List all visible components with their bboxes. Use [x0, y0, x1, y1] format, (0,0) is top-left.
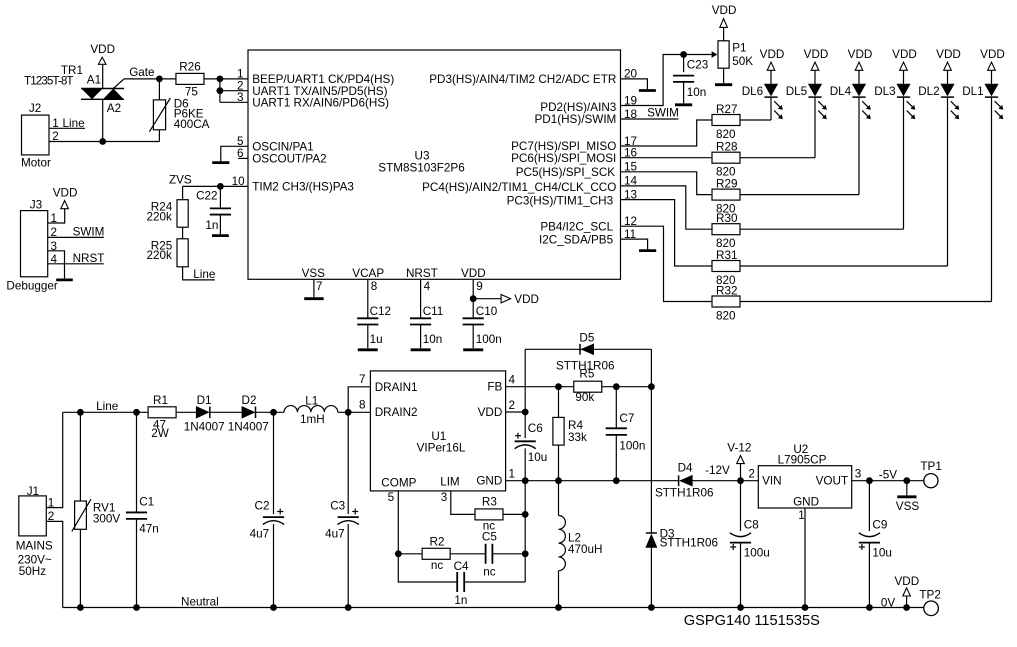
- junction R26 / pin1 / pin2: [217, 76, 224, 83]
- svg-text:VDD: VDD: [936, 48, 961, 61]
- resistor R2: [422, 548, 450, 559]
- svg-text:1n: 1n: [454, 594, 467, 607]
- ground below C11: [411, 348, 431, 351]
- svg-text:GND: GND: [793, 496, 819, 509]
- wire U3 pin7 VSS to ground: [313, 279, 315, 297]
- svg-text:10u: 10u: [872, 547, 892, 560]
- svg-text:PD3(HS)/AIN4/TIM2 CH2/ADC ETR: PD3(HS)/AIN4/TIM2 CH2/ADC ETR: [429, 73, 616, 86]
- LED DL6: [742, 84, 783, 119]
- ground below C10: [463, 348, 483, 351]
- wire C3 top: [347, 412, 349, 514]
- svg-text:8: 8: [359, 399, 366, 412]
- svg-text:NRST: NRST: [406, 267, 438, 280]
- svg-text:100n: 100n: [476, 333, 502, 346]
- svg-text:300V: 300V: [93, 512, 121, 525]
- svg-text:A2: A2: [107, 102, 121, 115]
- transil diode D6 P6KE 400CA: [149, 79, 209, 142]
- resistor R24: [177, 200, 188, 228]
- wire C2 bottom: [273, 524, 275, 608]
- svg-text:V-12: V-12: [727, 442, 751, 455]
- svg-text:3: 3: [441, 491, 448, 504]
- svg-text:R26: R26: [179, 60, 200, 73]
- svg-text:DL5: DL5: [786, 85, 808, 98]
- wire J3 pin3 to ground: [48, 251, 65, 279]
- junction pin2 tap: [217, 87, 224, 94]
- wire VDD to P1: [723, 27, 725, 40]
- wire C11 to ground: [420, 325, 422, 349]
- varistor RV1 300V: [72, 412, 121, 607]
- svg-text:DL1: DL1: [962, 85, 983, 98]
- svg-text:D4: D4: [678, 462, 693, 475]
- wire U2 VOUT -5V: [852, 480, 924, 482]
- svg-text:4: 4: [509, 373, 516, 386]
- ground at J3 pin3: [56, 278, 73, 281]
- svg-text:VDD: VDD: [514, 293, 539, 306]
- capacitor C8 100u: [730, 533, 751, 537]
- ground below P1: [715, 83, 732, 86]
- wire VDD to DL5: [814, 70, 816, 84]
- svg-text:D1: D1: [197, 394, 212, 407]
- svg-text:1N4007: 1N4007: [228, 420, 269, 433]
- connector J1 MAINS: [19, 496, 47, 536]
- svg-text:VIPer16L: VIPer16L: [417, 442, 466, 455]
- wire J2 pin1 net Line: [49, 127, 85, 129]
- svg-text:VIN: VIN: [762, 474, 781, 487]
- wire U3 pin10 ZVS: [183, 185, 248, 187]
- svg-text:4u7: 4u7: [325, 528, 345, 541]
- svg-text:3: 3: [51, 240, 58, 253]
- ground below C12: [358, 348, 378, 351]
- wire J3 pin2 SWIM: [48, 236, 104, 238]
- svg-text:50Hz: 50Hz: [19, 565, 46, 578]
- wire gate to R26: [124, 78, 176, 80]
- svg-text:R2: R2: [430, 536, 445, 549]
- resistor R27: [712, 115, 740, 126]
- LED DL1: [962, 84, 1003, 119]
- wire ZVS down to R24: [182, 186, 184, 200]
- junction GND / C6: [522, 477, 529, 484]
- svg-text:VDD: VDD: [760, 48, 785, 61]
- svg-text:C1: C1: [139, 496, 154, 509]
- wire DL6 to R27: [770, 97, 772, 120]
- junction COMP / R2 / C4: [395, 550, 402, 557]
- svg-text:220k: 220k: [147, 211, 173, 224]
- junction C9 / 0V: [866, 604, 873, 611]
- wire C7 top: [615, 387, 617, 429]
- svg-text:TP1: TP1: [920, 460, 941, 473]
- svg-text:PC5(HS)/SPI_SCK: PC5(HS)/SPI_SCK: [516, 166, 616, 179]
- wire VDD to triac A1: [102, 64, 104, 88]
- wire C6 bottom: [524, 448, 526, 480]
- svg-text:3: 3: [855, 468, 862, 481]
- wire R32 to DL1: [740, 301, 992, 303]
- wire C23 top: [683, 55, 685, 73]
- svg-text:VDD: VDD: [461, 267, 486, 280]
- junction RV1 / Neutral: [77, 604, 84, 611]
- capacitor C22 1n: [219, 186, 221, 208]
- junction L2 / 0V: [555, 604, 562, 611]
- svg-text:7: 7: [316, 280, 323, 293]
- svg-text:100n: 100n: [619, 439, 645, 452]
- diode D5 symbol: [579, 344, 581, 355]
- junction -5V / VSS: [903, 477, 910, 484]
- svg-text:VDD: VDD: [804, 48, 829, 61]
- wire C8 top: [740, 481, 742, 531]
- net arrow V-12: [727, 442, 751, 481]
- junction C3 / Neutral: [345, 604, 352, 611]
- wire J3 pin4 NRST: [48, 263, 104, 265]
- wire U3 pin12 to R32: [621, 226, 713, 301]
- svg-text:DL6: DL6: [742, 85, 763, 98]
- junction C2 / Neutral: [270, 604, 277, 611]
- triac TR1 T1235T-8T: [24, 64, 124, 115]
- wire U1 pin2 VDD: [506, 411, 526, 413]
- svg-text:820: 820: [716, 166, 736, 179]
- wire VDD to DL4: [858, 70, 860, 84]
- capacitor C5 nc: [482, 531, 497, 579]
- wire U1 pin1 GND line: [506, 480, 679, 482]
- wire to U1 pin7: [348, 387, 370, 413]
- wire U3 pin8 VCAP to C12: [367, 279, 369, 318]
- wire R1 to D1: [176, 411, 196, 413]
- microcontroller U3 STM8S103F2P6: [248, 50, 621, 279]
- svg-text:STTH1R06: STTH1R06: [556, 360, 614, 373]
- svg-text:C8: C8: [744, 519, 759, 532]
- svg-text:-5V: -5V: [879, 468, 897, 481]
- junction D3 / 0V: [648, 604, 655, 611]
- wire C3 bottom: [347, 524, 349, 608]
- svg-text:PC4(HS)/AIN2/TIM1_CH4/CLK_CCO: PC4(HS)/AIN2/TIM1_CH4/CLK_CCO: [422, 181, 616, 194]
- wire C23 to ground: [683, 82, 685, 103]
- power VDD symbol above DL5: [804, 48, 829, 70]
- svg-text:DRAIN1: DRAIN1: [375, 381, 418, 394]
- wire D4 to U2 VIN: [692, 480, 758, 482]
- junction VOUT / C9: [866, 477, 873, 484]
- svg-text:2W: 2W: [151, 427, 169, 440]
- svg-text:P1: P1: [732, 41, 746, 54]
- svg-text:50K: 50K: [732, 55, 753, 68]
- wire to U3 pin3: [220, 101, 248, 103]
- capacitor C22 plates: [210, 207, 231, 209]
- ground below C23: [675, 103, 692, 106]
- svg-text:R3: R3: [482, 495, 497, 508]
- resistor R1: [148, 407, 176, 418]
- svg-text:D5: D5: [579, 332, 594, 345]
- svg-text:2: 2: [48, 510, 55, 523]
- svg-text:VDD: VDD: [478, 406, 503, 419]
- svg-text:VDD: VDD: [980, 48, 1005, 61]
- svg-text:STTH1R06: STTH1R06: [655, 487, 713, 500]
- svg-text:Neutral: Neutral: [181, 596, 219, 609]
- svg-text:MAINS: MAINS: [16, 540, 53, 553]
- svg-text:STTH1R06: STTH1R06: [660, 537, 718, 550]
- ground at VSS pin7: [304, 297, 323, 300]
- capacitor C7 100n: [606, 427, 627, 429]
- wire C22 to ground: [219, 215, 221, 235]
- svg-text:Motor: Motor: [21, 157, 51, 170]
- wire C9 top: [868, 481, 870, 531]
- wire U1 pin3 LIM to R3: [451, 491, 475, 515]
- svg-text:ZVS: ZVS: [169, 174, 192, 187]
- svg-text:R27: R27: [716, 103, 737, 116]
- junction pin10 / C22: [217, 183, 224, 190]
- junction FB / D5 / D3: [648, 383, 655, 390]
- svg-text:220k: 220k: [147, 249, 173, 262]
- wire U3 pin11 to ground: [621, 239, 648, 249]
- svg-text:L7905CP: L7905CP: [778, 453, 827, 466]
- resistor R3: [475, 509, 503, 520]
- wire L2 bottom: [558, 571, 560, 608]
- svg-text:VCAP: VCAP: [352, 267, 384, 280]
- wire R2 to C5: [450, 553, 486, 555]
- svg-text:470uH: 470uH: [568, 543, 602, 556]
- capacitor C10 100n: [463, 317, 484, 319]
- power VDD symbol above DL6: [760, 48, 785, 70]
- svg-text:VSS: VSS: [896, 500, 920, 513]
- svg-text:TIM2 CH3/(HS)PA3: TIM2 CH3/(HS)PA3: [252, 181, 354, 194]
- svg-text:COMP: COMP: [381, 476, 416, 489]
- svg-text:1u: 1u: [370, 333, 383, 346]
- wire P1 to ground: [723, 68, 725, 83]
- junction Line / RV1: [77, 409, 84, 416]
- wire Neutral 0V rail: [63, 607, 924, 609]
- junction gate / D6: [156, 76, 163, 83]
- diode D3 STTH1R06: [646, 527, 718, 549]
- resistor R26: [176, 73, 204, 84]
- svg-text:4: 4: [51, 253, 58, 266]
- controller U1 VIPer16L: [370, 371, 505, 491]
- wire U3 pin16 to R28: [621, 157, 713, 159]
- junction C5 / vertical: [522, 550, 529, 557]
- ground at pin20: [639, 89, 656, 92]
- svg-text:2: 2: [748, 468, 755, 481]
- diode D5 STTH1R06: [525, 348, 651, 350]
- capacitor C23 10n: [673, 75, 694, 77]
- wire DL2 to R31: [947, 97, 949, 266]
- wire to U3 pin2: [220, 90, 248, 92]
- svg-text:OSCOUT/PA2: OSCOUT/PA2: [252, 153, 326, 166]
- svg-text:DRAIN2: DRAIN2: [375, 406, 418, 419]
- wire VDD to DL2: [947, 70, 949, 84]
- wire U1 pin4 FB line: [506, 386, 652, 388]
- svg-text:4u7: 4u7: [250, 528, 270, 541]
- svg-text:1: 1: [51, 212, 58, 225]
- capacitor C4 1n: [454, 560, 469, 607]
- svg-text:7: 7: [359, 373, 366, 386]
- svg-text:1n: 1n: [205, 219, 218, 232]
- svg-text:-12V: -12V: [705, 464, 730, 477]
- svg-text:nc: nc: [483, 566, 496, 579]
- LED DL2: [918, 84, 959, 119]
- junction Line / C1: [133, 409, 140, 416]
- junction pin9 / VDD arrow: [470, 295, 477, 302]
- resistor R28: [712, 152, 740, 163]
- wire DL5 to R28: [814, 97, 816, 158]
- junction C1 / Neutral: [133, 604, 140, 611]
- svg-text:STM8S103F2P6: STM8S103F2P6: [378, 161, 464, 174]
- wire C9 bottom: [868, 543, 870, 608]
- wire COMP to R2: [398, 553, 422, 555]
- wire U3 pin6 stub: [238, 157, 248, 159]
- svg-text:C2: C2: [255, 499, 270, 512]
- capacitor C11 10n: [410, 317, 431, 319]
- svg-text:1N4007: 1N4007: [184, 420, 225, 433]
- wire triac A2 down: [102, 99, 104, 141]
- junction U2 GND / 0V: [802, 604, 809, 611]
- wire J3 pin1 to VDD: [48, 209, 65, 223]
- wire FB node down to D3: [650, 387, 652, 533]
- svg-text:R29: R29: [716, 178, 737, 191]
- connector J2: [22, 115, 50, 155]
- svg-text:C5: C5: [482, 531, 497, 544]
- potentiometer P1 50K: [684, 41, 754, 68]
- svg-text:GSPG140 1151535S: GSPG140 1151535S: [684, 613, 820, 629]
- svg-text:D2: D2: [242, 394, 257, 407]
- wire J1 pin1 to Line rail: [46, 412, 62, 507]
- wire C7 bottom: [615, 435, 617, 481]
- LED DL5: [786, 84, 827, 119]
- junction FB / C7: [613, 383, 620, 390]
- wire R4 top: [558, 387, 560, 418]
- resistor R32: [712, 296, 740, 307]
- wire R26 to pin1: [204, 78, 248, 80]
- junction FB / R4: [555, 383, 562, 390]
- svg-text:Debugger: Debugger: [6, 280, 57, 293]
- ground at U3 pin5: [212, 161, 229, 164]
- junction R3 / vertical: [522, 511, 529, 518]
- wire D1 to D2: [210, 411, 242, 413]
- wire U2 GND to 0V: [804, 508, 806, 608]
- wire U3 pin14 to R30: [621, 186, 713, 229]
- capacitor C12 1u: [357, 317, 378, 319]
- junction -12V / V-12 / C8: [737, 477, 744, 484]
- regulator U2 L7905CP: [758, 466, 851, 508]
- svg-text:1: 1: [52, 117, 59, 130]
- svg-text:Gate: Gate: [129, 66, 154, 79]
- capacitor C3 4u7: [338, 516, 359, 518]
- svg-text:8: 8: [371, 280, 378, 293]
- power VDD symbol above DL2: [936, 48, 961, 70]
- svg-text:C11: C11: [423, 305, 444, 318]
- resistor R29: [712, 189, 740, 200]
- wire R29 to DL4: [740, 194, 860, 196]
- svg-text:OSCIN/PA1: OSCIN/PA1: [252, 141, 313, 154]
- svg-text:R31: R31: [716, 249, 737, 262]
- diode D1 1N4007: [196, 407, 209, 419]
- svg-text:10u: 10u: [528, 451, 548, 464]
- wire Line rail: [63, 411, 149, 413]
- svg-text:PC6(HS)/SPI_MOSI: PC6(HS)/SPI_MOSI: [511, 152, 616, 165]
- svg-text:VDD: VDD: [90, 43, 115, 56]
- wire R30 to DL3: [740, 228, 904, 230]
- svg-text:C3: C3: [330, 499, 345, 512]
- wire VDD to DL3: [903, 70, 905, 84]
- svg-text:C12: C12: [370, 305, 391, 318]
- svg-text:2: 2: [509, 399, 516, 412]
- connector J3 Debugger: [21, 211, 48, 277]
- svg-text:R1: R1: [153, 394, 168, 407]
- svg-text:C9: C9: [872, 519, 887, 532]
- wire R31 to DL2: [740, 265, 948, 267]
- ground below C22: [212, 234, 229, 237]
- resistor R31: [712, 261, 740, 272]
- svg-text:PC3(HS)/TIM1_CH3: PC3(HS)/TIM1_CH3: [507, 194, 614, 207]
- wire vertical GND to C4 corner: [524, 481, 526, 582]
- svg-text:3: 3: [237, 91, 244, 104]
- svg-text:100u: 100u: [744, 547, 770, 560]
- wire C6 top: [524, 412, 526, 438]
- svg-text:Line: Line: [193, 268, 215, 281]
- svg-text:90k: 90k: [575, 391, 594, 404]
- wire D3 to 0V rail: [650, 548, 652, 608]
- svg-text:820: 820: [716, 128, 736, 141]
- wire R3 to vertical: [503, 513, 525, 515]
- svg-text:I2C_SDA/PB5: I2C_SDA/PB5: [539, 233, 614, 246]
- wire U3 pin15 to R29: [621, 172, 713, 195]
- svg-text:VDD: VDD: [894, 575, 919, 588]
- inductor L1 1mH: [284, 394, 338, 426]
- svg-text:1: 1: [509, 468, 516, 481]
- svg-text:C22: C22: [196, 189, 217, 202]
- wire C5 to vertical: [492, 553, 525, 555]
- svg-text:SWIM: SWIM: [73, 225, 105, 238]
- wire L2 top: [558, 481, 560, 516]
- wire DL1 to R32: [991, 97, 993, 301]
- wire DL4 to R29: [858, 97, 860, 195]
- svg-text:DL3: DL3: [874, 85, 895, 98]
- wire U3 pin19 to P1 wiper: [621, 55, 684, 106]
- svg-text:NRST: NRST: [73, 252, 105, 265]
- wire pins 1-2-3 vertical: [219, 79, 221, 102]
- wire D5 right down to FB: [650, 349, 652, 386]
- svg-text:PD1(HS)/SWIM: PD1(HS)/SWIM: [534, 113, 616, 126]
- svg-text:400CA: 400CA: [174, 118, 210, 131]
- svg-text:DL4: DL4: [830, 85, 852, 98]
- svg-text:A1: A1: [87, 73, 101, 86]
- wire U3 pin20 to ground: [621, 79, 648, 89]
- diode D4 STTH1R06: [678, 475, 680, 486]
- wire U3 pin17 to R27: [621, 120, 713, 146]
- svg-text:VDD: VDD: [848, 48, 873, 61]
- wire C2 top: [273, 412, 275, 514]
- svg-text:VOUT: VOUT: [816, 474, 848, 487]
- LED DL4: [830, 84, 871, 119]
- junction wiper / C23: [680, 51, 687, 58]
- wire C12 to ground: [367, 325, 369, 349]
- svg-text:2: 2: [51, 226, 58, 239]
- wire L1 to U1 pin8: [338, 411, 371, 413]
- wire VDD to DL1: [991, 70, 993, 84]
- wire VDD to DL6: [770, 70, 772, 84]
- wire R25 to Line net stub: [183, 267, 215, 280]
- wire R24 to R25: [182, 227, 184, 239]
- diode D2 1N4007: [242, 407, 255, 419]
- svg-text:PB4/I2C_SCL: PB4/I2C_SCL: [540, 221, 613, 234]
- capacitor C2 4u7: [263, 516, 284, 518]
- svg-text:SWIM: SWIM: [647, 106, 679, 119]
- svg-text:2: 2: [52, 130, 59, 143]
- power VDD symbol above DL3: [892, 48, 917, 70]
- wire U3 pin9 VDD down: [472, 279, 474, 318]
- wire COMP down to C4: [398, 554, 457, 582]
- wire DL3 to R30: [903, 97, 905, 229]
- svg-text:VSS: VSS: [302, 267, 326, 280]
- svg-text:10n: 10n: [687, 86, 707, 99]
- svg-text:C7: C7: [619, 412, 634, 425]
- svg-text:4: 4: [424, 280, 431, 293]
- svg-text:9: 9: [476, 280, 483, 293]
- svg-text:1: 1: [48, 496, 55, 509]
